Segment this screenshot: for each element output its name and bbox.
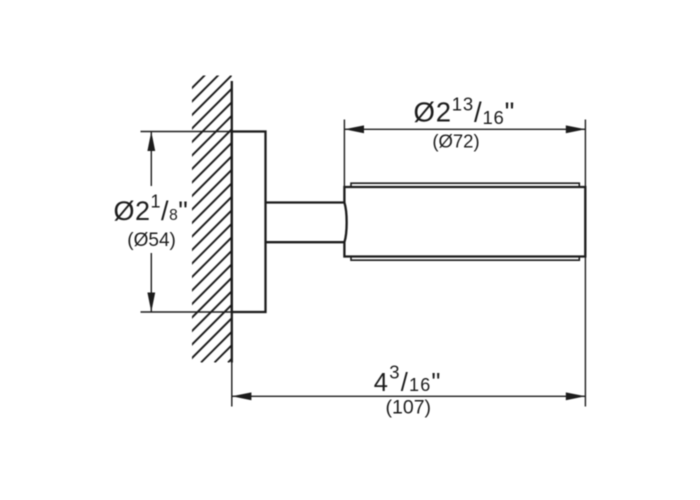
bottom dimension arrow left: [232, 392, 252, 400]
left dimension extension line bottom: [141, 311, 232, 313]
svg-text:(107): (107): [386, 397, 432, 419]
left dimension line lower segment: [150, 253, 152, 312]
bottom dimension arrow right: [566, 392, 586, 400]
bottom dimension extension line left: [231, 363, 233, 407]
left dimension extension line top: [141, 131, 232, 133]
holder cylinder: [344, 187, 585, 257]
cylinder top rim: [351, 183, 579, 187]
left dimension arrow down: [147, 293, 155, 313]
left dimension arrow up: [147, 132, 155, 152]
svg-text:(Ø72): (Ø72): [432, 130, 479, 151]
top/bottom dimension extension line right: [584, 120, 586, 407]
top dimension arrow right: [566, 125, 586, 133]
wall surface line: [231, 81, 233, 363]
bottom dimension line: [232, 395, 586, 397]
stem bottom line: [266, 241, 345, 243]
left dimension line upper segment: [150, 132, 152, 187]
top dimension extension line left: [343, 120, 345, 188]
mounting plate: [232, 132, 266, 313]
cylinder bottom rim: [351, 257, 579, 261]
stem top line: [266, 201, 345, 203]
top dimension line: [344, 128, 585, 130]
wall hatching: [0, 0, 591, 363]
top dimension arrow left: [344, 125, 364, 133]
svg-text:(Ø54): (Ø54): [127, 230, 176, 251]
